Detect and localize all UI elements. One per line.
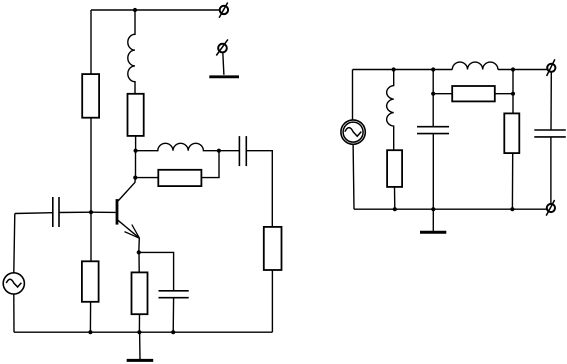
node rail L3 branch bbox=[392, 67, 396, 71]
capacitor C1 input coupling bbox=[53, 197, 59, 227]
node R8 right junction bbox=[511, 92, 515, 96]
resistor R4 parallel bbox=[158, 170, 201, 186]
node bottom rail C2 bbox=[171, 330, 175, 334]
node L2 right junction bbox=[217, 149, 221, 153]
transistor Q1 emitter bbox=[118, 220, 139, 238]
wire R3 to collector node bbox=[135, 136, 137, 151]
wire base node to bias resistor bbox=[90, 212, 92, 261]
wire emitter down bbox=[138, 238, 141, 252]
wire C4 to bottom rail bbox=[432, 134, 434, 210]
wire R6 to bottom rail bbox=[271, 270, 273, 332]
wire V1 top lead bbox=[14, 214, 15, 273]
capacitor C5 output bbox=[534, 130, 566, 137]
node bottom L3 branch bbox=[393, 207, 397, 211]
AC source V2 bbox=[341, 120, 365, 144]
node rail right column bbox=[511, 67, 515, 71]
wire C1 to base node bbox=[59, 211, 91, 213]
wire node to R8 bbox=[433, 93, 452, 95]
wire R4 right to L2 right node bbox=[201, 151, 219, 178]
node R8 left junction bbox=[431, 92, 435, 96]
node top rail junction bbox=[133, 8, 137, 12]
inductor L2 horizontal bbox=[136, 143, 219, 150]
wire P3 to C5 bbox=[550, 72, 552, 130]
node R4 left junction bbox=[133, 176, 137, 180]
wire source to C1 bbox=[15, 212, 53, 215]
transistor Q1 emitter arrow bbox=[125, 225, 140, 239]
node rail C4 branch bbox=[431, 67, 435, 71]
terminal P1 bbox=[219, 3, 228, 18]
wire top rail left circuit bbox=[91, 9, 220, 11]
wire V2 to bottom rail bbox=[352, 144, 355, 209]
terminal P3 bbox=[547, 59, 556, 76]
resistor R6 load bbox=[264, 227, 282, 270]
wire right column upper bbox=[512, 70, 514, 114]
wire R2 to bottom rail bbox=[89, 302, 91, 332]
wire R8 to right column bbox=[495, 93, 513, 95]
wire L2 node to C3 bbox=[219, 150, 240, 152]
capacitor C2 bypass bbox=[159, 291, 189, 298]
terminal P4 bbox=[546, 200, 555, 216]
node bottom ground branch bbox=[431, 207, 435, 211]
wire P2 to ground bbox=[223, 52, 224, 75]
inductor L1 collector choke bbox=[128, 10, 135, 94]
node base junction bbox=[89, 210, 93, 214]
ground main bbox=[127, 332, 154, 360]
wire emitter node to R5 bbox=[138, 252, 140, 272]
wire bottom rail right circuit bbox=[354, 208, 546, 210]
wire collector lead bbox=[118, 178, 135, 201]
wire R9 to bottom rail bbox=[511, 153, 513, 209]
wire C3 to R6 bbox=[246, 151, 272, 227]
wire R1 to base node bbox=[90, 118, 92, 213]
wire top rail right circuit left span bbox=[353, 69, 453, 71]
resistor R1 bbox=[82, 74, 99, 118]
wire bottom rail bbox=[14, 331, 272, 333]
capacitor C4 shunt bbox=[417, 127, 449, 134]
node bottom rail left bbox=[88, 330, 92, 334]
wire base lead bbox=[91, 211, 116, 213]
wire rail to V2 bbox=[352, 70, 354, 120]
node emitter junction bbox=[137, 250, 141, 254]
wire node to R4 bbox=[135, 177, 158, 179]
wire collector node down bbox=[135, 151, 137, 178]
resistor R5 emitter bbox=[132, 272, 148, 314]
resistor R2 bias bbox=[82, 261, 99, 302]
wire left vertical to R1 bbox=[90, 10, 92, 74]
transistor Q1 base bar bbox=[116, 199, 119, 225]
wire C5 to P4 bbox=[550, 137, 552, 204]
capacitor C3 output coupling bbox=[239, 136, 246, 166]
wire V1 bottom lead bbox=[13, 294, 15, 332]
resistor R7 bbox=[387, 150, 402, 187]
inductor L4 shunt bbox=[387, 70, 394, 151]
node collector junction bbox=[134, 149, 138, 153]
wire R7 to bottom rail bbox=[394, 187, 396, 209]
resistor R8 parallel bbox=[452, 86, 495, 101]
node bottom right column bbox=[510, 207, 514, 211]
node bottom rail center bbox=[137, 330, 141, 334]
resistor R3 bbox=[128, 94, 144, 136]
ground under P2 bbox=[209, 75, 239, 78]
wire top rail right circuit right span bbox=[498, 69, 548, 71]
wire rail to C4 bbox=[432, 70, 434, 127]
inductor L3 series bbox=[452, 62, 498, 69]
wire R5 to bottom rail bbox=[138, 314, 140, 332]
terminal P2 bbox=[216, 39, 228, 55]
AC source V1 bbox=[3, 273, 24, 294]
wire emitter node to C2 branch bbox=[139, 252, 174, 290]
wire C2 to bottom rail bbox=[172, 298, 174, 333]
resistor R9 bbox=[504, 113, 519, 153]
ground right circuit bbox=[420, 209, 446, 232]
